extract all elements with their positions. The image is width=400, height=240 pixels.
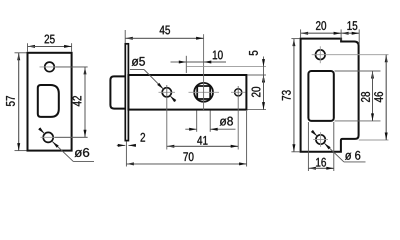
- dim 70 text: [183, 152, 193, 161]
- centerline spindle horizontal: [189, 91, 220, 93]
- dim 15 text: [347, 21, 357, 30]
- hole dia5 body: [162, 88, 171, 97]
- latch cutout left view: [38, 85, 59, 117]
- dim 10 extension line: [185, 56, 187, 73]
- latch bolt: [110, 76, 125, 108]
- dim 46 bottom extension: [359, 139, 389, 141]
- crosshair top hole vertical: [319, 46, 321, 63]
- spindle circle: [194, 83, 213, 102]
- dim 42 extension lines: [56, 66, 88, 68]
- dim 16 text: [316, 158, 326, 167]
- dim 41 line: [167, 145, 238, 147]
- centerline dia5 hole: [159, 91, 176, 93]
- strike bottom screw hole: [316, 135, 325, 144]
- dim 2 outside arrows: [117, 144, 126, 146]
- dim 73 line: [293, 39, 295, 152]
- dim 28 line: [372, 71, 374, 121]
- body top extension right: [248, 74, 267, 76]
- dim 45 text: [160, 26, 170, 35]
- spindle square: [197, 86, 210, 99]
- centerline top hole left view: [40, 66, 88, 68]
- dim 28 text: [361, 92, 370, 102]
- body bottom extension right: [248, 109, 267, 111]
- leader dia6 right tail: [344, 161, 366, 163]
- leader dia6 left view tail: [73, 161, 94, 163]
- centerline bottom hole left view: [41, 136, 88, 138]
- dim 42 line: [84, 67, 86, 137]
- dim 20 line: [301, 32, 342, 34]
- leader dia5 diagonal: [144, 70, 164, 90]
- strike top screw hole: [316, 50, 326, 60]
- dim 57 line: [18, 53, 20, 151]
- centerline right hole: [231, 91, 246, 93]
- dim 70 extension lines: [125, 142, 127, 167]
- extension line 41 right: [237, 86, 239, 150]
- dim 5 outside arrows: [263, 57, 265, 67]
- dim 2 text: [141, 133, 146, 142]
- lock body: [128, 75, 246, 110]
- handle centerline gray: [187, 66, 267, 68]
- dim 73 extension lines: [291, 38, 299, 40]
- dim 45 line: [125, 37, 203, 39]
- dim 16 extension lines: [307, 122, 309, 171]
- top screw hole left view: [45, 62, 55, 72]
- dim 28 extension lines: [335, 70, 381, 72]
- dim 20/15 extension lines: [300, 29, 302, 37]
- dim 5 text: [249, 51, 258, 56]
- dim 20 body line: [263, 75, 265, 110]
- crosshair bottom hole horizontal: [313, 139, 328, 141]
- bottom screw hole left view: [43, 132, 53, 142]
- faceplate edge view: [125, 44, 128, 141]
- crosshair bottom hole vertical: [320, 132, 322, 147]
- label dia6 left view: [75, 148, 90, 157]
- dim 25 line: [28, 45, 72, 47]
- dim 15 line: [341, 32, 359, 34]
- dim 73 text: [282, 90, 291, 100]
- centerline top hole + dim 46 extension: [312, 54, 389, 56]
- extension line 41 left (through dia5 hole): [166, 85, 168, 150]
- dim 20 body text: [252, 87, 261, 97]
- dim dia8 text: [220, 117, 233, 126]
- strike latch cutout: [308, 71, 333, 121]
- dim 57 extension lines: [15, 52, 27, 54]
- dim 70 line: [126, 163, 246, 165]
- plate outline left view: [28, 53, 72, 151]
- dim 57 text: [6, 96, 15, 106]
- leader dia5 tail: [130, 69, 144, 71]
- dim 25 extension lines: [27, 43, 29, 52]
- dim 10 text: [213, 50, 223, 59]
- dim dia8 outside arrows: [185, 128, 196, 130]
- leader dia6 right diagonal: [312, 131, 317, 136]
- centerline + extension 45 spindle vertical: [203, 34, 205, 110]
- dim 46 line: [385, 55, 387, 140]
- leader dia6 left view diagonal: [39, 128, 45, 134]
- dim 45 extension left: [124, 30, 126, 43]
- dim 41 text: [197, 136, 207, 145]
- dim 20 text: [316, 21, 326, 30]
- dim 42 text: [73, 96, 82, 106]
- dim 10 line with outside arrows: [171, 61, 187, 63]
- right screw hole body: [235, 89, 242, 96]
- strike plate outline: [301, 39, 359, 152]
- dim 46 text: [374, 92, 383, 102]
- label dia5: [132, 57, 145, 66]
- dim dia8 extension lines: [196, 111, 198, 132]
- label dia6 right: [345, 151, 360, 160]
- dim 25 text: [45, 35, 55, 44]
- dim 16 line: [308, 167, 333, 169]
